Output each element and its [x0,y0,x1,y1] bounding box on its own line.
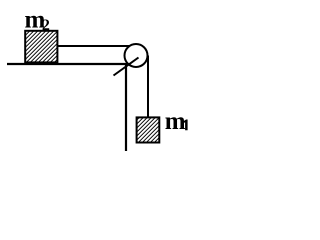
pulley [125,44,148,67]
block m1 [137,117,160,142]
svg-text:m2: m2 [25,6,50,34]
table edge (vertical) [125,64,127,151]
svg-text:m: m [165,108,186,135]
rope from m2 to pulley [57,45,130,47]
rope from pulley to m1 [147,56,149,119]
label m1 subscript 1 [184,120,188,131]
table surface [7,63,127,65]
block m2 [25,31,57,63]
pulley bracket (diagonal) [114,58,139,76]
